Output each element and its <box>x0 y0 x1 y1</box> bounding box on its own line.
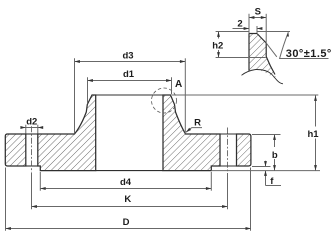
detail weld bevel edge <box>257 34 266 44</box>
dimension K lines <box>32 206 228 208</box>
dimension h2 lines <box>218 32 220 58</box>
dimension b lines <box>274 134 276 171</box>
detail hub flare edge <box>266 57 275 75</box>
h1 arrows <box>314 96 317 101</box>
flange right-mid section with right hub wall <box>163 95 220 171</box>
f arrows <box>264 161 267 166</box>
svg-text:A: A <box>175 79 182 90</box>
angle 30 bevel extension line <box>266 43 277 57</box>
flange plate left end section <box>5 134 26 166</box>
flange plate right end section <box>237 134 251 166</box>
svg-text:h2: h2 <box>212 40 223 51</box>
detail wall top face <box>249 33 257 35</box>
detail A balloon dashed circle <box>152 88 177 113</box>
dimension f lines <box>265 161 267 166</box>
dimension D lines <box>6 228 251 230</box>
label h1 with background <box>306 127 321 139</box>
svg-text:2: 2 <box>237 18 242 29</box>
svg-text:R: R <box>194 117 201 128</box>
svg-text:D: D <box>123 217 130 228</box>
svg-text:d2: d2 <box>26 117 37 128</box>
D arrows <box>6 227 11 230</box>
dimension d2 lines <box>21 127 43 129</box>
h2 arrows <box>217 32 220 37</box>
dimension d1 lines <box>88 80 172 82</box>
svg-text:b: b <box>272 150 278 161</box>
plate top edge across right bolt hole <box>220 133 237 135</box>
label h2 with background <box>211 39 225 51</box>
d2 arrows <box>20 126 25 129</box>
d3 arrows <box>75 60 80 63</box>
svg-text:h1: h1 <box>307 129 319 140</box>
angle 30 arc and leader shoulder <box>280 32 329 58</box>
detail wall inner edge <box>248 34 250 71</box>
detail break line <box>242 69 284 83</box>
d1 arrows <box>88 79 93 82</box>
plate top edge across left bolt hole <box>26 133 38 135</box>
detail A hatched wall section <box>249 34 276 80</box>
R leader arrow <box>185 128 191 134</box>
detail wall outer edge <box>265 43 267 57</box>
flange left-mid section with left hub wall <box>38 95 96 171</box>
b arrows <box>273 135 276 140</box>
neck top face edge across bore <box>96 94 163 96</box>
svg-text:K: K <box>124 194 131 205</box>
dashed centerline of left bolt hole <box>31 126 33 172</box>
2 arrows <box>244 27 249 30</box>
d4 arrows <box>40 187 45 190</box>
label b with background <box>271 147 280 159</box>
dimension h1 lines <box>315 95 317 171</box>
dimension d4 lines <box>40 188 211 190</box>
svg-text:S: S <box>255 6 261 17</box>
dashed centerline of right bolt hole <box>227 128 229 173</box>
S arrows <box>249 16 254 19</box>
plate bottom edge across left bolt hole <box>26 165 38 167</box>
svg-text:d3: d3 <box>122 51 133 62</box>
dimension d3 lines <box>75 61 186 63</box>
angle arc arrow <box>287 32 290 37</box>
radius R leader <box>186 128 202 133</box>
raised face bottom edge across bore <box>96 170 163 172</box>
dimension S lines <box>249 17 266 19</box>
svg-text:30°±1.5°: 30°±1.5° <box>286 48 332 60</box>
svg-text:d1: d1 <box>123 69 135 80</box>
plate bottom edge across right bolt hole <box>220 165 237 167</box>
K arrows <box>32 205 37 208</box>
svg-text:d4: d4 <box>120 177 132 188</box>
dimension 2 lines <box>233 28 250 30</box>
angle 30 reference line <box>257 31 290 33</box>
